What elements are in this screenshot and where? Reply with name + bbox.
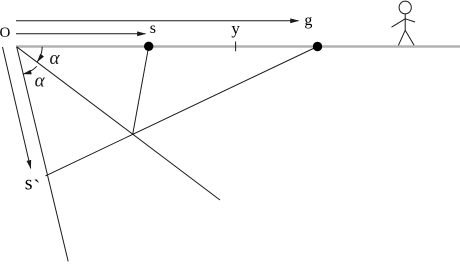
svg-text:α: α: [35, 70, 46, 91]
svg-text:s: s: [25, 172, 33, 194]
svg-text:`: `: [34, 176, 41, 198]
svg-text:s: s: [150, 20, 156, 37]
svg-text:y: y: [231, 19, 240, 38]
svg-text:O: O: [0, 25, 11, 41]
svg-text:α: α: [50, 48, 61, 69]
svg-text:g: g: [304, 12, 312, 29]
